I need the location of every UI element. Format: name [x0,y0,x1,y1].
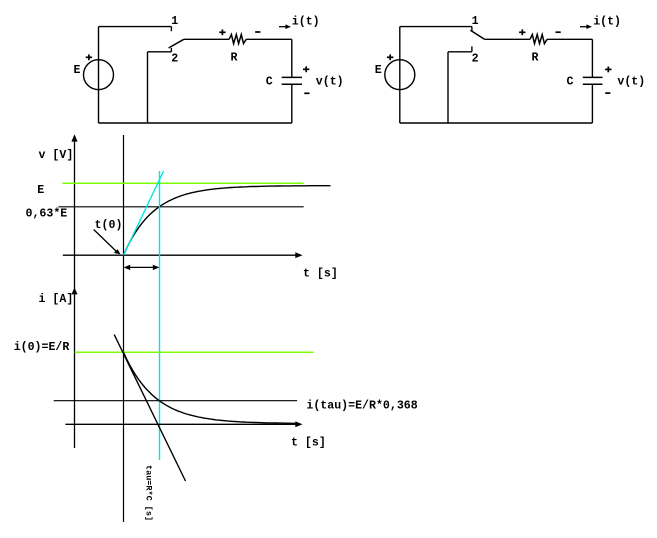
resistor R circuit2 [530,35,547,44]
cyan tau vertical line [159,171,161,460]
node t0 vertical line [123,135,125,522]
v axis and i axis vertical line [74,141,76,448]
switch S2 contact 2 tick [471,46,473,51]
label - capacitor circuit1 [304,92,309,94]
wire top left circuit1 [99,26,172,28]
cyan tangent line graph1 [124,171,164,255]
current arrow i(t) circuit1 [279,24,291,29]
wire contact2 vertical circuit2 [447,52,449,123]
svg-text:1: 1 [472,15,479,28]
label + source circuit2 [387,56,393,58]
label - resistor circuit2 [556,31,561,33]
wire left vertical circuit2 [399,27,401,123]
svg-text:v(t): v(t) [617,76,645,89]
svg-text:i(tau)=E/R*0,368: i(tau)=E/R*0,368 [306,400,417,413]
t axis graph1 arrowhead [295,252,302,258]
t(0) pointer arrow [94,230,121,255]
wire right vertical lower circuit1 [291,84,293,123]
svg-text:tau=R*C [s]: tau=R*C [s] [144,465,154,521]
resistor R circuit1 [229,35,246,44]
wire right vertical upper circuit1 [291,39,293,77]
wire resistor to corner circuit1 [246,38,292,40]
label + capacitor circuit1 [303,68,309,70]
wire contact2 horizontal circuit2 [448,51,472,53]
E/R level green line graph2 [75,351,314,353]
label + resistor circuit1 [219,31,225,33]
source E circuit1 [84,60,114,90]
wire right vertical upper circuit2 [591,39,593,77]
svg-text:E: E [375,64,382,77]
svg-text:i(0)=E/R: i(0)=E/R [14,341,70,354]
i(tau) level line graph2 [54,400,297,402]
label - capacitor circuit2 [605,92,610,94]
wire bottom circuit1 [99,122,292,124]
svg-text:t [s]: t [s] [291,437,326,450]
switch S1 contact 1 tick [170,27,172,32]
label + source circuit1 [86,56,92,58]
svg-text:t(0): t(0) [95,219,123,232]
wire switch to resistor circuit1 [184,38,229,40]
label + capacitor circuit2 [605,68,611,70]
t axis graph2 arrowhead [295,421,302,427]
svg-text:E: E [74,64,81,77]
switch S2 arm (closed to 1) [470,30,484,39]
label + resistor circuit2 [519,31,525,33]
switch S1 arm (closed to 2) [169,39,184,48]
svg-text:t [s]: t [s] [303,268,338,281]
i axis arrowhead [71,288,77,295]
t axis graph1 [63,254,297,256]
svg-text:1: 1 [171,15,178,28]
switch S1 contact 2 tick [170,48,172,52]
capacitor C circuit2 plate bottom [583,83,603,85]
E level green line graph1 [62,182,303,184]
svg-text:0,63*E: 0,63*E [26,208,68,221]
switch S2 contact 1 tick [471,27,473,32]
svg-text:E: E [37,184,44,197]
svg-text:2: 2 [472,53,479,66]
svg-text:v [V]: v [V] [39,149,74,162]
i(t) discharge curve graph2 [124,352,298,423]
v axis arrowhead [71,134,77,141]
current arrow i(t) circuit2 [580,24,592,29]
svg-text:v(t): v(t) [316,76,344,89]
svg-text:R: R [231,52,238,65]
svg-text:i(t): i(t) [593,15,621,28]
wire switch to resistor circuit2 [485,38,531,40]
source E circuit2 [385,60,415,90]
svg-text:i(t): i(t) [292,15,320,28]
tau double arrow [124,265,160,270]
svg-text:i [A]: i [A] [39,293,74,306]
label - resistor circuit1 [255,31,260,33]
wire contact2 vertical circuit1 [147,52,149,123]
wire contact2 horizontal circuit1 [148,51,172,53]
svg-text:C: C [266,76,273,89]
t axis graph2 [65,423,297,425]
wire right vertical lower circuit2 [591,84,593,123]
capacitor C circuit2 plate top [583,76,603,78]
wire bottom circuit2 [400,122,593,124]
tangent line graph2 [114,335,185,481]
capacitor C circuit1 plate bottom [282,83,302,85]
wire resistor to corner circuit2 [547,38,592,40]
v(t) charge curve graph1 [124,186,331,256]
wire top left circuit2 [400,26,472,28]
wire left vertical circuit1 [98,27,100,123]
0,63*E level line graph1 [58,206,303,208]
svg-text:C: C [567,76,574,89]
capacitor C circuit1 plate top [282,76,302,78]
svg-text:2: 2 [171,53,178,66]
svg-text:R: R [532,52,539,65]
